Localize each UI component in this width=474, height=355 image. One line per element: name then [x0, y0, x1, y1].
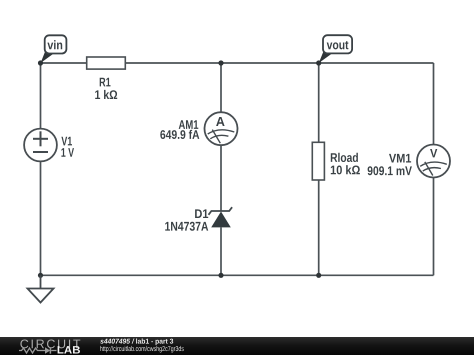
node vin junction dot — [38, 60, 43, 65]
wire top rail: vin node to R1 — [41, 62, 88, 64]
resistor R1 — [87, 57, 126, 99]
wire bottom rail: Rload branch to VM1 branch — [319, 274, 434, 276]
node vout label — [319, 35, 352, 63]
junction dot at AM1 branch / top rail — [218, 60, 223, 65]
ammeter AM1 — [160, 112, 237, 145]
zener diode D1 — [165, 207, 232, 231]
junction dot at Rload branch / bottom rail — [316, 273, 321, 278]
wire Rload branch: Rload down to bottom rail — [318, 180, 320, 275]
wire top rail: vout node to top-right corner — [319, 62, 434, 64]
junction dot at ground / bottom rail — [38, 273, 43, 278]
node vout junction dot — [316, 60, 321, 65]
footer bar — [0, 337, 474, 355]
wire middle branch: AM1 down to D1 — [220, 145, 222, 211]
wire bottom rail: ground to AM1 branch — [41, 274, 222, 276]
voltmeter VM1 — [368, 145, 450, 178]
wire left branch: vin node down to V1 — [40, 63, 42, 129]
wire right branch: corner down to VM1 — [433, 63, 435, 144]
junction dot at AM1 branch / bottom rail — [218, 273, 223, 278]
wire bottom rail: AM1 branch to Rload branch — [221, 274, 319, 276]
voltage source V1 — [24, 129, 74, 162]
ground — [28, 275, 54, 302]
wire Rload branch: vout node down to Rload — [318, 63, 320, 142]
footer title text — [100, 338, 184, 352]
node vin label — [41, 35, 67, 63]
wire right branch: VM1 down to bottom rail — [433, 178, 435, 276]
wire middle branch: D1 down to bottom rail — [220, 227, 222, 275]
wire top rail: AM1 junction to vout node — [221, 62, 319, 64]
wire top rail: R1 to AM1 junction — [125, 62, 221, 64]
wire middle branch: top rail down to AM1 — [220, 63, 222, 112]
footer CircuitLab logo — [19, 339, 80, 353]
resistor Rload — [312, 142, 360, 180]
wire left branch: V1 down to bottom rail — [40, 161, 42, 275]
